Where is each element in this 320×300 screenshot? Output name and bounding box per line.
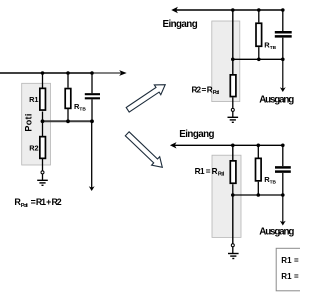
- wire cap to output bus (top right): [282, 38, 284, 60]
- arrowhead down (Ausgang bottom): [280, 221, 286, 226]
- node input-cap corner (top right): [281, 8, 285, 12]
- block arrow down-right: [125, 132, 162, 168]
- svg-text:R1: R1: [29, 95, 38, 104]
- node input-cap corner (bottom right): [281, 144, 285, 148]
- ground (bottom right): [228, 253, 239, 255]
- svg-text:Poti: Poti: [23, 114, 33, 132]
- wire input bus (top right): [173, 9, 283, 11]
- wire input to capacitor: [91, 73, 93, 93]
- node input-R2 branch (top right): [231, 8, 235, 12]
- wire cap to output bus (bottom right): [282, 173, 284, 195]
- ground (top right): [228, 116, 239, 118]
- svg-text:R1 =: R1 =: [281, 256, 299, 265]
- arrowhead left (Eingang bottom): [170, 142, 177, 148]
- node terminal circle (bottom right): [231, 244, 234, 247]
- svg-text:R2 = R: R2 = R: [192, 85, 213, 94]
- wire wiper bus: [43, 120, 93, 122]
- node input-RTB (top right): [257, 8, 261, 12]
- wire input to cap (top right): [282, 10, 284, 31]
- wire RTB to output bus (top right): [258, 47, 260, 59]
- svg-text:Ausgang: Ausgang: [259, 227, 294, 238]
- resistor RTB (top right): [256, 23, 262, 46]
- wire R2 to terminal: [42, 159, 44, 171]
- ground (left): [37, 179, 48, 181]
- capacitor (top right): [275, 31, 292, 34]
- arrowhead down (Ausgang top): [280, 87, 286, 92]
- node terminal circle (left): [41, 171, 44, 174]
- resistor R2=RPoti (top right): [230, 75, 236, 97]
- arrowhead right (left circuit): [119, 70, 127, 76]
- wire input bus (bottom right): [172, 144, 283, 146]
- wire output down (bottom right): [282, 195, 284, 223]
- wire input to cap (bottom right): [282, 145, 284, 166]
- wire input to RTB (top right): [258, 10, 260, 22]
- wire output down (left circuit): [91, 121, 93, 188]
- node junction input-cap: [90, 71, 94, 75]
- potentiometer body box (left Poti): [22, 83, 51, 165]
- node input-R1 branch (bottom right): [231, 144, 235, 148]
- wire input to RTB (bottom right): [257, 145, 259, 157]
- node output-cap (top right): [281, 58, 285, 62]
- wire input bus (left circuit top): [0, 72, 92, 74]
- node output-main (top right): [231, 58, 235, 62]
- node output-cap (bottom right): [281, 193, 285, 197]
- svg-text:= R1 + R2: = R1 + R2: [31, 197, 62, 207]
- capacitor (bottom right): [275, 166, 291, 169]
- wire input to R1: [42, 73, 44, 88]
- resistor RTB (left): [65, 89, 71, 109]
- wire R2 to terminal (top right): [232, 98, 234, 109]
- resistor R1: [40, 88, 46, 110]
- arrowhead left (Eingang top): [171, 7, 178, 13]
- wire to right arrow: [92, 72, 124, 74]
- wire RTB to wiper bus: [67, 109, 69, 121]
- svg-text:R1 = R: R1 = R: [195, 167, 218, 176]
- svg-text:Poti: Poti: [218, 172, 225, 178]
- resistor RTB (bottom right): [256, 158, 262, 181]
- svg-text:Poti: Poti: [213, 90, 220, 96]
- formula box (bottom right corner): [276, 248, 308, 290]
- svg-text:Poti: Poti: [21, 203, 28, 209]
- wire main vertical to R2 (top right): [232, 10, 234, 74]
- potentiometer body box (top right): [212, 21, 240, 102]
- arrowhead down (left output): [89, 186, 95, 191]
- node output-RTB (top right): [257, 58, 261, 62]
- wire R1 to output bus (bottom right): [232, 184, 234, 195]
- block arrow up-right: [126, 85, 165, 112]
- wire main vertical to terminal (bottom right): [232, 195, 234, 244]
- node input-RTB (bottom right): [257, 144, 261, 148]
- node junction input-RTB: [66, 71, 70, 75]
- resistor R2: [40, 137, 46, 159]
- svg-text:Ausgang: Ausgang: [259, 94, 294, 105]
- wire R1 to wiper bus: [42, 112, 44, 122]
- svg-text:R1 =: R1 =: [281, 272, 299, 281]
- node junction input-R1: [41, 71, 45, 75]
- wire output bus (top right): [233, 58, 283, 60]
- wire wiper to R2: [42, 121, 44, 136]
- wire output bus (bottom right): [233, 194, 283, 196]
- wire output down (top right): [282, 59, 284, 89]
- capacitor C (left): [85, 93, 100, 95]
- node terminal circle (top right): [231, 108, 234, 111]
- node wiper-RTB: [66, 119, 70, 123]
- wire capacitor to wiper bus: [91, 99, 93, 121]
- svg-text:R2: R2: [29, 143, 38, 152]
- node output-RTB (bottom right): [257, 193, 261, 197]
- svg-text:Eingang: Eingang: [179, 129, 214, 140]
- wire terminal to ground (left): [42, 174, 44, 180]
- node wiper-output: [90, 119, 94, 123]
- wire input to RTB: [67, 73, 69, 88]
- svg-text:Eingang: Eingang: [163, 19, 198, 30]
- wire terminal to ground (bottom right): [232, 247, 234, 253]
- potentiometer body box (bottom right): [212, 155, 241, 237]
- node output-main (bottom right): [231, 193, 235, 197]
- wire terminal to ground (top right): [232, 111, 234, 117]
- resistor R1=RPoti (bottom right): [230, 161, 236, 183]
- wire input to R1 (bottom right): [232, 145, 234, 160]
- node wiper-R2: [41, 119, 45, 123]
- wire RTB to output bus (bottom right): [257, 182, 259, 195]
